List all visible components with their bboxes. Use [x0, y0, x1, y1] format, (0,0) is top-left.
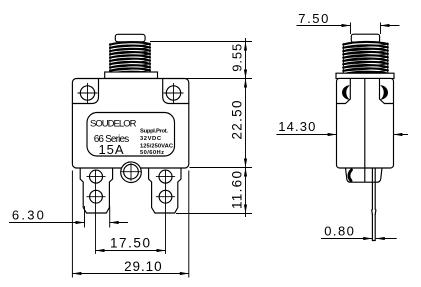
front view: label panel — [87, 113, 175, 157]
dim 6.30 extension lines — [85, 206, 110, 228]
side view: body centerline — [364, 79, 366, 182]
dim 14.30 line — [276, 134, 408, 136]
arrow 7.50 right — [381, 24, 390, 27]
dim 29.10 extension lines — [72, 171, 188, 278]
front view: body outline — [72, 79, 188, 169]
dim 7.50 line — [297, 25, 400, 27]
side view: left latch slot — [337, 79, 351, 104]
arrow 6.30 right — [110, 221, 119, 224]
arrow 9.55 bottom — [244, 70, 247, 79]
front view: left ear parting line — [72, 79, 98, 104]
svg-text:11.60: 11.60 — [230, 171, 245, 209]
front view: right tab hole 2 — [159, 190, 172, 203]
svg-text:7.50: 7.50 — [298, 11, 328, 26]
side view: push button cap — [351, 34, 379, 42]
arrow 17.50 left — [96, 249, 105, 252]
side view: terminal blade — [372, 169, 375, 210]
arrow 29.10 right — [180, 272, 189, 275]
dim 0.80 line — [321, 238, 397, 240]
arrow 22.50 top — [244, 79, 247, 88]
side view: right latch crescent — [380, 85, 388, 100]
arrow 11.60 top — [244, 168, 247, 177]
front view: left screw — [80, 86, 94, 100]
arrow 14.30 right — [393, 133, 402, 136]
front view: left terminal tab — [80, 168, 112, 213]
svg-text:15A: 15A — [99, 142, 124, 157]
front view: center boss — [121, 162, 142, 183]
arrow 29.10 left — [72, 272, 81, 275]
arrow 14.30 left — [328, 133, 337, 136]
arrow 0.80 left — [363, 237, 372, 240]
dim 6.30 line — [9, 222, 128, 224]
front view: center screw — [124, 164, 139, 179]
svg-text:0.80: 0.80 — [324, 223, 354, 238]
front view: right tab hole 1 — [159, 170, 172, 183]
right chain dimension line — [245, 38, 247, 217]
front view: right tab centerline — [165, 170, 167, 254]
arrow 17.50 right — [157, 249, 166, 252]
svg-text:50/60Hz: 50/60Hz — [140, 150, 164, 156]
svg-text:6.30: 6.30 — [12, 208, 44, 223]
front view: right terminal tab — [149, 168, 181, 213]
side view: body outline — [337, 78, 394, 168]
arrow 6.30 left — [76, 221, 85, 224]
arrow 9.55 top — [244, 42, 247, 51]
arrow 22.50 bottom — [244, 159, 247, 168]
svg-text:SOUDELOR: SOUDELOR — [90, 118, 137, 129]
front view: push button cap — [115, 34, 145, 42]
side view: mounting flange — [336, 73, 394, 78]
right chain extension lines — [150, 42, 252, 214]
side view: bottom boss — [346, 168, 383, 182]
side view: left latch crescent — [342, 85, 350, 100]
front view: left tab centerline — [95, 170, 97, 254]
svg-text:22.50: 22.50 — [230, 101, 245, 140]
side view: right latch slot — [380, 79, 394, 104]
front view: mounting flange — [105, 72, 158, 79]
svg-text:9.55: 9.55 — [230, 44, 245, 72]
svg-text:Suppl.Prot.: Suppl.Prot. — [140, 129, 168, 135]
front view: left tab hole 2 — [90, 190, 103, 203]
dim 29.10 line — [72, 273, 188, 275]
arrowheads — [72, 24, 402, 275]
svg-text:29.10: 29.10 — [124, 259, 162, 274]
svg-text:32VDC: 32VDC — [140, 136, 162, 142]
dim 17.50 line — [96, 250, 166, 252]
front view: right screw — [166, 86, 180, 100]
arrow 0.80 right — [376, 237, 385, 240]
front view: threaded bushing — [110, 42, 150, 74]
arrow 7.50 left — [342, 24, 351, 27]
svg-text:125/250VAC: 125/250VAC — [140, 143, 174, 149]
front view: right ear parting line — [163, 79, 189, 104]
side view: boss shading arc — [349, 170, 352, 181]
front view: left tab hole 1 — [90, 170, 103, 183]
arrow 11.60 bottom — [244, 205, 247, 214]
dim 7.50 extension lines — [351, 23, 381, 35]
side view: threaded bushing — [343, 42, 388, 74]
svg-text:14.30: 14.30 — [278, 119, 315, 134]
svg-text:17.50: 17.50 — [110, 236, 150, 251]
